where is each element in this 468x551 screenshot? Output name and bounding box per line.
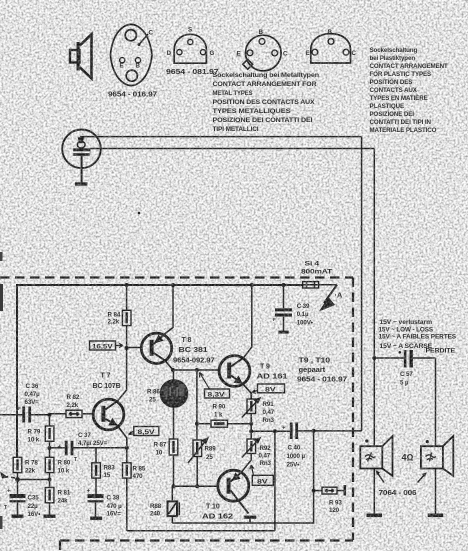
wire to R93 (314, 490, 322, 492)
TO-3 mounting hole bottom (126, 70, 137, 81)
node C39 rail (282, 283, 286, 287)
metal types text block (213, 72, 320, 133)
node C40 right (312, 429, 316, 433)
transistor T10 (218, 470, 249, 513)
node R84 rail (125, 283, 129, 287)
TO-3 case dot C (138, 43, 141, 46)
speaker 2 ground (428, 514, 444, 518)
feedback riser (274, 431, 276, 531)
plastic package pin C (343, 49, 349, 55)
rail A emitter/0V (172, 431, 313, 523)
15V text block (379, 319, 457, 355)
wire R85 to feedback rail (126, 478, 128, 531)
resistor R87 (169, 439, 178, 455)
wire jack line 1 (81, 136, 362, 139)
wire T8 collector node to T9 base (173, 369, 220, 371)
TO-3 pin E (120, 58, 125, 63)
node T9 rail (250, 283, 254, 287)
T10 emitter bar (244, 516, 256, 519)
voltage box 8,5V (129, 427, 159, 436)
capacitor C35 (4, 489, 26, 515)
speaker 1 polarity star (365, 439, 368, 442)
wire rail to R84 (126, 285, 128, 310)
dashed border right (352, 278, 354, 541)
resistor R78 (13, 457, 22, 472)
resistor R93 (322, 487, 337, 494)
speaker icon top-left (70, 34, 92, 78)
wire T9 base column (196, 370, 198, 424)
dashed border top (0, 276, 353, 278)
wire C57 to speaker 2 (435, 358, 437, 446)
feedback rail bottom (127, 530, 275, 532)
package 9654-081.97 outline (174, 34, 206, 63)
rheostat R89 (188, 438, 208, 463)
node R90 left (195, 422, 199, 426)
metal can pin C (272, 50, 278, 56)
wire T9 collector to rail (244, 285, 252, 358)
voltage box 8V T9 (252, 384, 285, 393)
speaker 2 polarity star (426, 440, 429, 443)
thermistor R86 (160, 370, 188, 439)
transistor T7 (93, 399, 127, 448)
dashed border bottom (60, 539, 353, 541)
wire output to C40 (251, 430, 290, 432)
page edge smudges (0, 252, 3, 261)
node feedback branch (273, 429, 277, 433)
wire node to R79 (49, 415, 51, 426)
leader speaker 1 (377, 472, 385, 483)
resistor R79 (45, 426, 54, 441)
transistor T8 (141, 328, 173, 371)
wire R80 bottom (49, 473, 51, 488)
wire speaker 2 to ground (435, 469, 437, 514)
C35 ground (12, 515, 24, 518)
package 2 pin D (177, 50, 182, 55)
wire R92 to T10 collector (241, 454, 251, 473)
supply rail 16.5V (17, 285, 303, 457)
voltage box 16,5V (90, 341, 124, 350)
node R89 bottom (195, 484, 199, 488)
capacitor C37 (50, 441, 97, 463)
TO-3 leader to C (140, 34, 149, 44)
loudspeaker 2 (421, 436, 453, 476)
wire node to R82 (50, 413, 67, 415)
node output (249, 429, 253, 433)
voltage box 8V T10 (250, 465, 273, 485)
wire emitter node to R85 (126, 448, 128, 463)
resistor R85 (123, 463, 132, 478)
resistor R82 (66, 410, 82, 417)
loudspeaker 1 (360, 436, 392, 476)
wire output riser right (361, 137, 363, 431)
resistor R88 (168, 501, 180, 516)
wire jack line 2 (90, 148, 374, 150)
TO-3 pin B (135, 58, 140, 63)
wire R78 to node (17, 473, 19, 480)
wire node down to T7 collector (118, 348, 127, 401)
transistor T9 (219, 356, 251, 399)
package 2 pin G (200, 50, 205, 55)
wire R82 to T7 base (82, 413, 93, 415)
resistor R81 (45, 488, 54, 503)
dashed border left leg (59, 541, 61, 551)
wire R79 to node2 (49, 441, 51, 448)
wire R84 to node (126, 326, 128, 348)
wire node to R90 (197, 423, 211, 425)
voltage box 8,3V (200, 373, 230, 399)
jack plug tip (78, 137, 85, 143)
wire node to R80 bottom node (18, 479, 50, 481)
rheostat R92 (242, 438, 260, 458)
plastic package outline (311, 34, 351, 63)
jack ground bar (75, 182, 87, 185)
node T7 emitter (125, 446, 129, 450)
wire R83 to C38 (95, 478, 97, 494)
capacitor C57 (374, 350, 435, 368)
resistor R90 (211, 420, 228, 427)
C38 ground (90, 517, 102, 520)
wire R88 top (171, 486, 173, 501)
R81 ground (44, 515, 56, 518)
package 2 pin S (188, 39, 193, 44)
resistor R83 (92, 463, 101, 478)
jack plug ring (77, 141, 85, 148)
metal can package outline (245, 35, 281, 71)
node C36/R82/R79 (48, 413, 52, 417)
capacitor C36 (18, 406, 50, 423)
wire R87 to base node (173, 455, 175, 486)
plastic package pin B (328, 39, 334, 45)
R93 terminal (337, 490, 344, 492)
node T10 base left (172, 484, 176, 488)
node R90/output column (249, 422, 253, 426)
wire R91 to node (250, 414, 252, 440)
wire T8 base (127, 347, 141, 349)
metal can tab (243, 59, 253, 69)
jack contact bar 1 (73, 148, 90, 151)
wire jack to ground (81, 156, 83, 183)
wire C35 stub (17, 480, 19, 495)
node R80/R81 (48, 478, 52, 482)
rheostat R91 (242, 398, 260, 418)
wire C37 to emitter node (96, 447, 127, 449)
wire emitter bar to rail A (249, 519, 251, 523)
plastic types text block (370, 47, 449, 134)
dashed wiper arrow (0, 472, 15, 479)
resistor R80 (45, 457, 54, 472)
wire R88 bottom to rail A (171, 516, 173, 523)
resistor R84 (122, 310, 131, 325)
input wire (0, 414, 22, 416)
metal can pin E (247, 50, 253, 56)
capacitor C39 (273, 285, 292, 334)
arrow to +A (319, 285, 343, 312)
wire R83 stub (95, 448, 97, 463)
speaker 1 ground (367, 514, 383, 518)
plastic package pin E (312, 49, 318, 55)
node T9 base branch (195, 368, 199, 372)
wire node to R80 (49, 448, 51, 457)
fuse Si4 (298, 282, 337, 288)
node R93 branch (312, 489, 316, 493)
wire T8 emitter(top) to rail (172, 285, 174, 328)
TO-3 package outline 9654-016.97 (110, 24, 152, 85)
capacitor C40 (282, 423, 362, 440)
node T8 rail (171, 283, 175, 287)
wire R81 to ground (49, 503, 51, 515)
headphone jack circle (62, 130, 101, 169)
node C57 branch (372, 356, 376, 360)
capacitor C38 (87, 489, 104, 517)
wire R90 to output column (228, 423, 252, 425)
wire speaker feed riser (373, 149, 375, 446)
wire R89 bottom (196, 457, 198, 487)
wire speaker 1 to ground (373, 469, 375, 514)
metal can pin B (259, 39, 265, 45)
node R79/C37/R80 (48, 446, 52, 450)
TO-3 mounting hole top (125, 30, 136, 41)
leader speaker 2 (418, 474, 426, 483)
jack contact bar 2 (73, 153, 89, 156)
wire R89 top (196, 424, 198, 440)
node T7 collector / T8 base (125, 346, 129, 350)
node T8 collector (171, 368, 175, 372)
wire T10 base (174, 485, 218, 487)
node R78/C35 (15, 477, 20, 482)
